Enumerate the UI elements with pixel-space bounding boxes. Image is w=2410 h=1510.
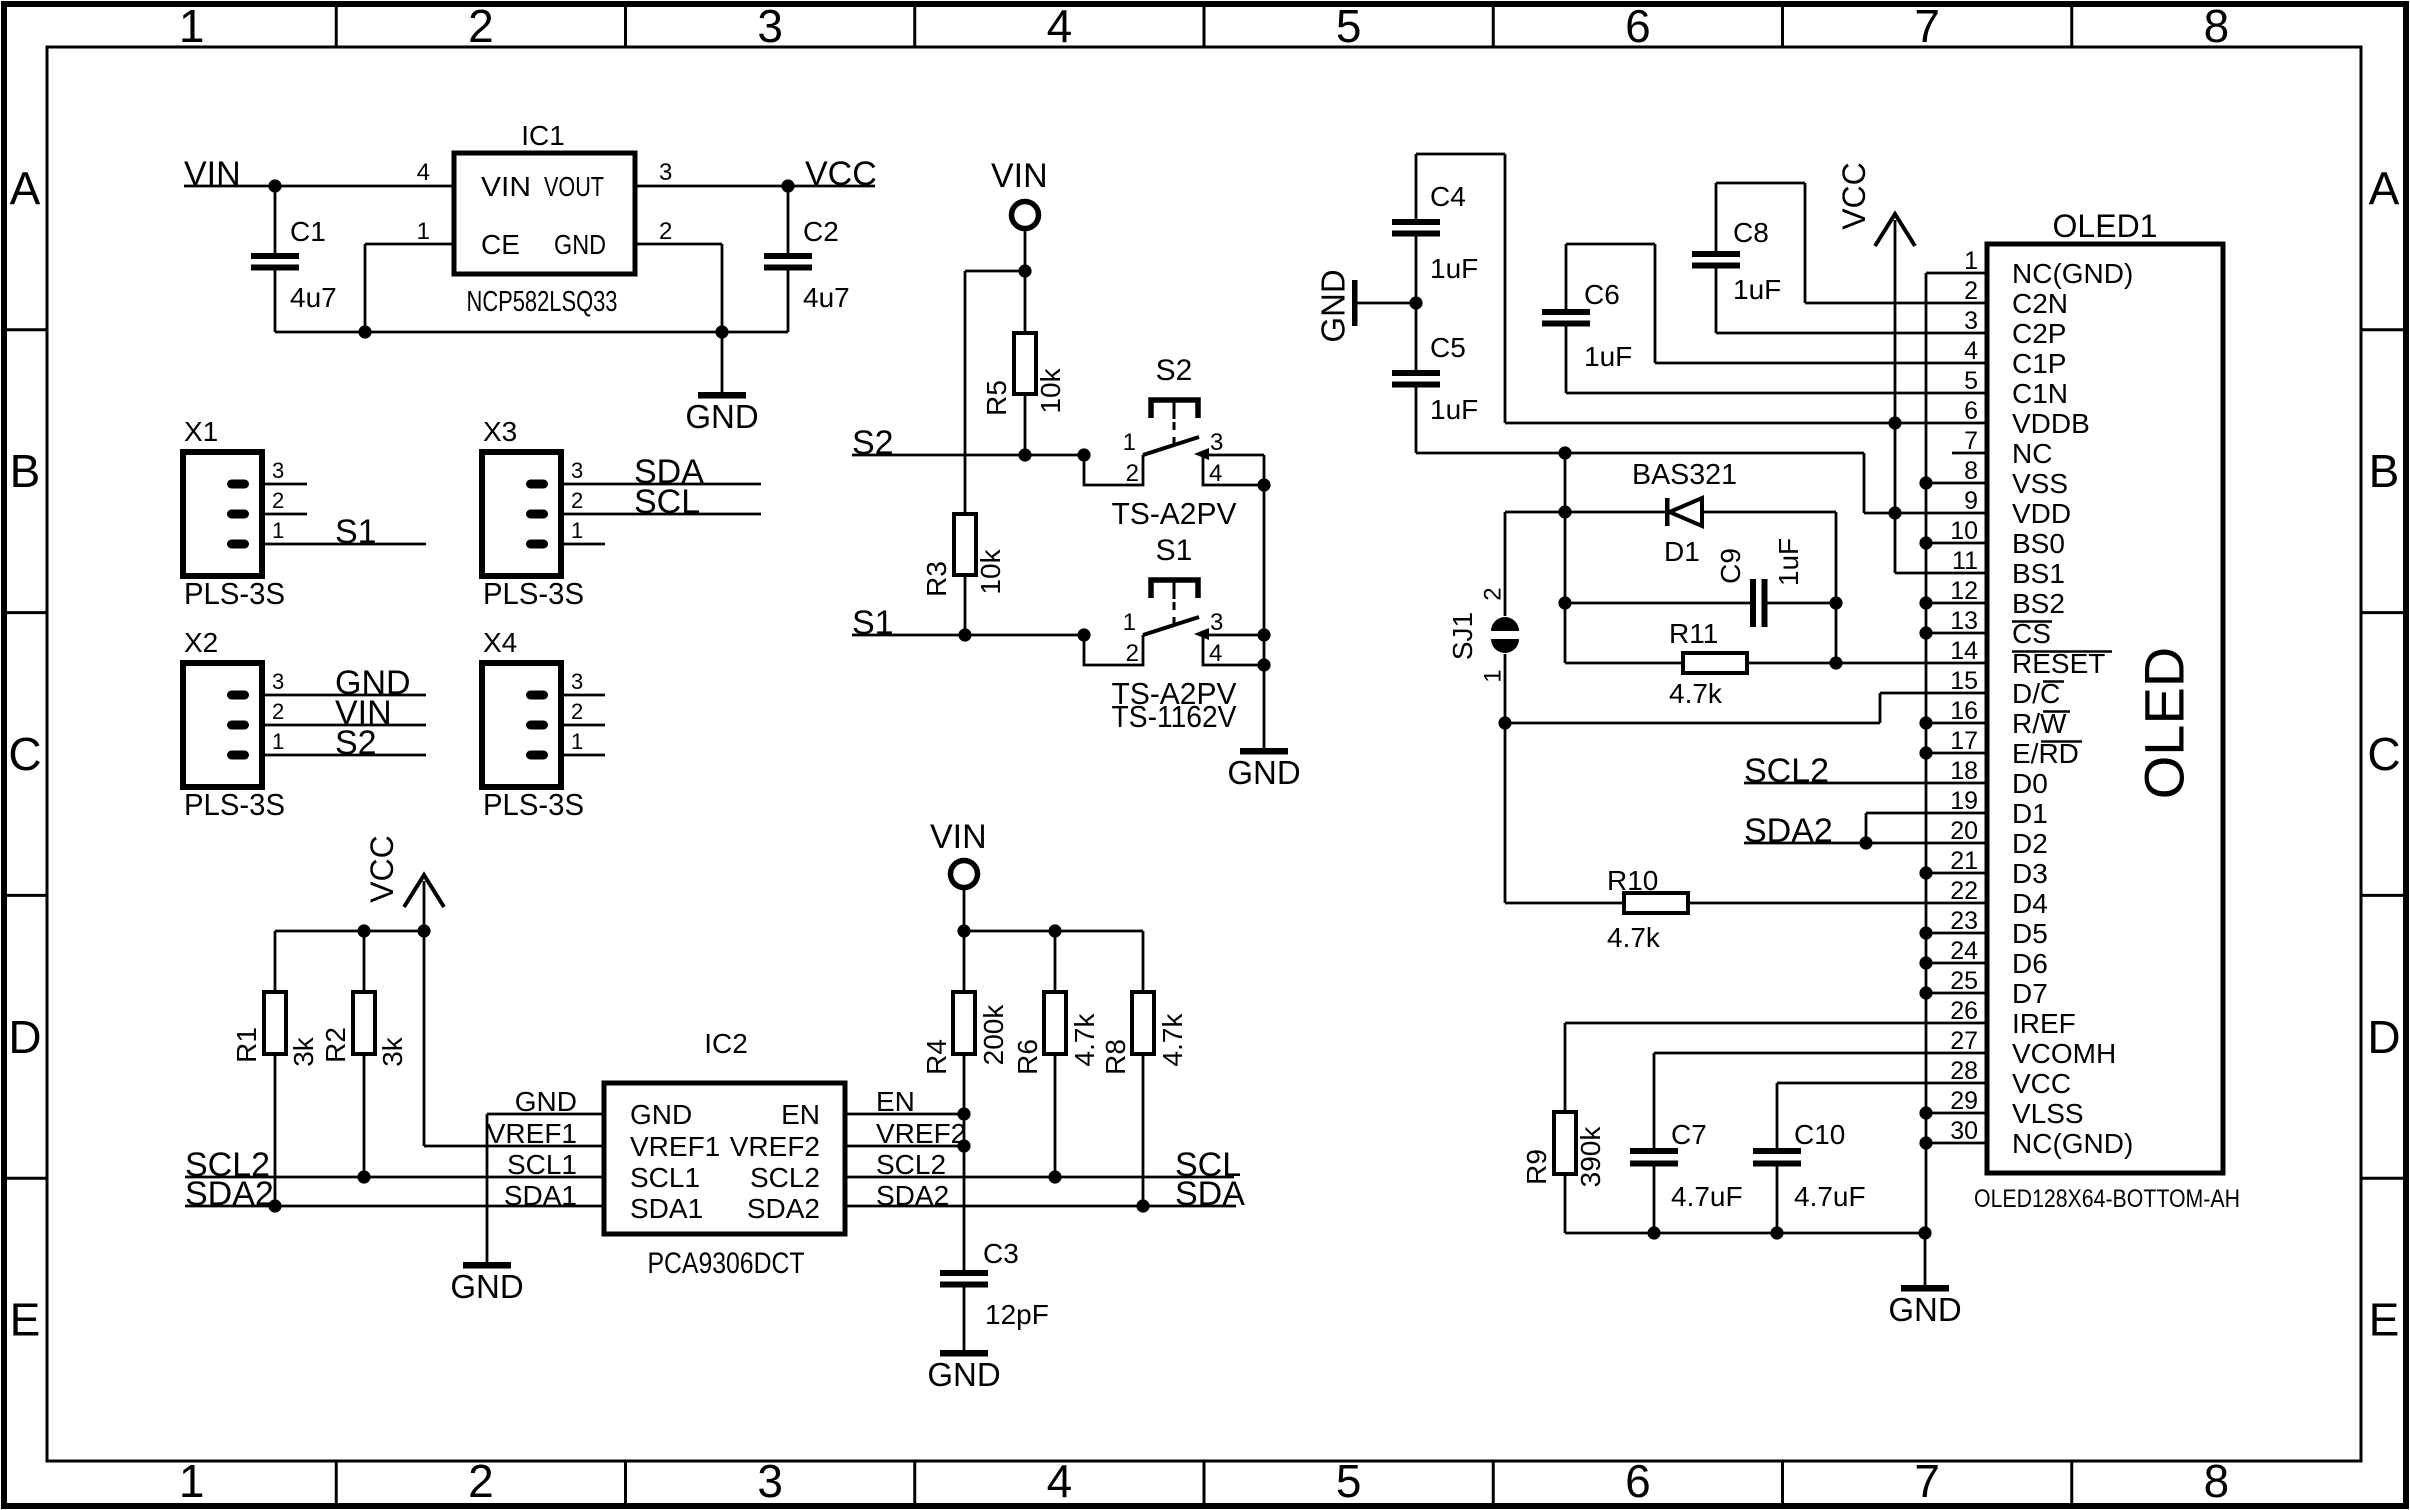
svg-text:GND: GND	[515, 1086, 577, 1117]
svg-text:2: 2	[1126, 640, 1139, 667]
wire X4 pin 2	[561, 724, 605, 727]
svg-text:D: D	[8, 1011, 41, 1063]
svg-text:GND: GND	[927, 1356, 1000, 1393]
svg-text:VCC: VCC	[2012, 1068, 2071, 1099]
svg-text:VREF1: VREF1	[630, 1131, 720, 1162]
switch S1 TS-A2PV	[1084, 534, 1264, 667]
svg-text:SCL2: SCL2	[750, 1162, 820, 1193]
svg-text:C3: C3	[983, 1238, 1019, 1269]
wire OLED pin 29 stub from ground bus	[1926, 1112, 1987, 1115]
svg-text:VSS: VSS	[2012, 468, 2068, 499]
OLED1 pin 10 BS0 name and number	[1950, 517, 2065, 559]
svg-text:12pF: 12pF	[985, 1299, 1049, 1330]
svg-text:4.7k: 4.7k	[1607, 922, 1661, 953]
resistor R4 200k	[921, 931, 1009, 1270]
svg-text:E: E	[2369, 1294, 2400, 1346]
svg-text:29: 29	[1950, 1087, 1978, 1115]
wire C7 to OLED pin 27 VCOMH	[1654, 1052, 1987, 1055]
svg-text:VREF1: VREF1	[487, 1118, 577, 1149]
svg-text:4: 4	[1209, 460, 1222, 487]
svg-text:PLS-3S: PLS-3S	[184, 576, 285, 611]
S2 value TS-A2PV	[1112, 496, 1237, 531]
svg-text:PLS-3S: PLS-3S	[483, 787, 584, 822]
svg-text:SDA1: SDA1	[504, 1180, 577, 1211]
svg-text:EN: EN	[876, 1086, 915, 1117]
svg-text:2: 2	[468, 0, 494, 52]
svg-text:4: 4	[1047, 1455, 1073, 1507]
svg-text:2: 2	[1479, 587, 1506, 600]
svg-text:13: 13	[1950, 607, 1978, 635]
svg-text:VDDB: VDDB	[2012, 408, 2090, 439]
wire IC1 ground rail with junctions	[275, 325, 788, 338]
svg-text:R9: R9	[1521, 1149, 1552, 1185]
capacitor C1 4u7	[251, 186, 337, 332]
OLED1 pin 8 VSS name and number	[1964, 457, 2068, 499]
OLED1 pin 20 D2 name and number	[1950, 817, 2048, 859]
diode D1 BAS321	[1505, 459, 1836, 567]
svg-text:D1: D1	[1664, 536, 1700, 567]
svg-text:1: 1	[272, 729, 284, 754]
svg-text:D5: D5	[2012, 918, 2048, 949]
svg-text:1uF: 1uF	[1430, 394, 1478, 425]
wire X3 pin 2 net SCL	[561, 483, 761, 521]
svg-text:SDA1: SDA1	[630, 1193, 703, 1224]
node S1 net label left	[852, 604, 894, 642]
svg-text:A: A	[2369, 162, 2400, 214]
IC2 pin name labels outside	[487, 1086, 967, 1211]
svg-text:3: 3	[1964, 307, 1978, 335]
wire OLED pin 12 stub from ground bus	[1926, 602, 1987, 605]
svg-text:X4: X4	[483, 627, 517, 658]
svg-text:6: 6	[1625, 0, 1651, 52]
OLED1 pin 19 D1 name and number	[1950, 787, 2048, 829]
OLED1 pin 14 RESET name and number	[1950, 637, 2105, 679]
svg-text:3: 3	[757, 0, 783, 52]
svg-text:SCL2: SCL2	[876, 1149, 946, 1180]
svg-text:C2N: C2N	[2012, 288, 2068, 319]
svg-text:15: 15	[1950, 667, 1978, 695]
OLED1 pin 11 BS1 name and number	[1952, 547, 2065, 589]
svg-text:SCL: SCL	[634, 483, 700, 521]
svg-text:VCC: VCC	[805, 155, 877, 193]
svg-text:SDA: SDA	[1175, 1175, 1245, 1213]
svg-text:4u7: 4u7	[290, 282, 337, 313]
svg-text:S2: S2	[1156, 354, 1193, 387]
capacitor C8 1uF	[1692, 183, 1781, 333]
svg-text:BS0: BS0	[2012, 528, 2065, 559]
svg-text:6: 6	[1625, 1455, 1651, 1507]
svg-text:5: 5	[1336, 0, 1362, 52]
svg-text:2: 2	[468, 1455, 494, 1507]
wire IC2 EN to R4 branch	[845, 1107, 971, 1120]
OLED1 pin 12 BS2 name and number	[1950, 577, 2065, 619]
svg-text:2: 2	[1964, 277, 1978, 305]
svg-text:S1: S1	[1156, 534, 1193, 567]
power symbol VCC arrow left	[364, 835, 444, 907]
OLED1 pin 3 C2P name and number	[1964, 307, 2066, 349]
svg-text:7: 7	[1914, 1455, 1940, 1507]
svg-text:X3: X3	[483, 416, 517, 447]
svg-text:C: C	[2367, 728, 2400, 780]
wire OLED pin 19 D1 branch	[1866, 813, 1987, 843]
svg-text:SDA2: SDA2	[747, 1193, 820, 1224]
svg-text:2: 2	[571, 488, 583, 513]
node SCL2 net label left	[185, 1146, 270, 1184]
svg-text:GND: GND	[450, 1268, 523, 1305]
resistor R2 3k	[320, 992, 408, 1177]
svg-text:D6: D6	[2012, 948, 2048, 979]
connector X1 PLS-3S	[183, 416, 285, 611]
wire OLED pin 17 stub from ground bus	[1926, 752, 1987, 755]
capacitor C6 1uF	[1542, 244, 1632, 393]
svg-text:X1: X1	[184, 416, 218, 447]
OLED1 pin 15 D/C name and number	[1950, 667, 2060, 709]
node SDA2 net label right	[1744, 812, 1833, 850]
wire ground bus S2 to S1	[1257, 485, 1270, 665]
OLED1 pin 24 D6 name and number	[1950, 937, 2048, 979]
svg-text:VLSS: VLSS	[2012, 1098, 2084, 1129]
svg-text:1: 1	[179, 1455, 205, 1507]
wire bottom ground rail of R9 C7 C10	[1565, 1226, 1932, 1239]
svg-text:VOUT: VOUT	[544, 171, 604, 202]
svg-text:4: 4	[1209, 640, 1222, 667]
OLED1 display connector OLED128X64-BOTTOM-AH	[1974, 208, 2240, 1213]
wire OLED pin 8 stub from ground bus	[1926, 482, 1987, 485]
svg-text:2: 2	[272, 699, 284, 724]
svg-text:C8: C8	[1733, 217, 1769, 248]
OLED1 pin 17 E/RD name and number	[1950, 727, 2079, 769]
svg-text:26: 26	[1950, 997, 1978, 1025]
OLED1 pin 7 NC name and number	[1964, 427, 2052, 469]
svg-text:VIN: VIN	[481, 171, 531, 202]
OLED1 pin 13 CS name and number	[1950, 607, 2051, 649]
wire VCC stem to IC2 VREF1	[417, 881, 604, 1146]
svg-text:GND: GND	[630, 1099, 692, 1130]
svg-text:R5: R5	[981, 380, 1012, 416]
OLED1 pin 4 C1P name and number	[1964, 337, 2066, 379]
svg-text:16: 16	[1950, 697, 1978, 725]
svg-text:2: 2	[659, 218, 672, 245]
svg-text:C: C	[8, 728, 41, 780]
svg-text:20: 20	[1950, 817, 1978, 845]
wire IC1 CE pin 1 to ground rail	[365, 244, 454, 332]
OLED1 pin 5 C1N name and number	[1964, 367, 2068, 409]
svg-text:GND: GND	[554, 229, 606, 260]
svg-text:GND: GND	[1315, 269, 1352, 342]
frame row labels A-E right	[2367, 162, 2400, 1345]
svg-text:1: 1	[1123, 609, 1136, 636]
svg-text:1: 1	[179, 0, 205, 52]
svg-text:17: 17	[1950, 727, 1978, 755]
capacitor C3 12pF	[940, 1238, 1049, 1350]
svg-text:C2P: C2P	[2012, 318, 2066, 349]
svg-text:C1: C1	[290, 216, 326, 247]
svg-text:3: 3	[659, 159, 672, 186]
wire X2 pin 2 net VIN	[262, 694, 426, 732]
connector X4 PLS-3S	[482, 627, 584, 822]
resistor R3 10k	[921, 271, 1006, 635]
wire OLED pin 1 stub from ground bus	[1926, 272, 1987, 275]
connector X3 PLS-3S	[482, 416, 584, 611]
svg-text:GND: GND	[685, 398, 758, 435]
svg-text:12: 12	[1950, 577, 1978, 605]
svg-text:SCL1: SCL1	[507, 1149, 577, 1180]
svg-text:D3: D3	[2012, 858, 2048, 889]
wire right side of D1 block	[1829, 512, 1842, 670]
wire X3 pin 3 net SDA	[561, 453, 761, 491]
svg-text:2: 2	[1126, 460, 1139, 487]
wire switch S1 pin 3 to ground bus	[1203, 634, 1264, 637]
wire OLED pin 30 stub from ground bus	[1926, 1142, 1987, 1145]
svg-text:25: 25	[1950, 967, 1978, 995]
svg-text:EN: EN	[781, 1099, 820, 1130]
ground symbol left of C4 C5 (rotated)	[1315, 269, 1358, 342]
resistor R6 4.7k	[1012, 931, 1100, 1177]
wire OLED pin 7 NC stub	[1952, 452, 1987, 455]
OLED1 pin 18 D0 name and number	[1950, 757, 2048, 799]
svg-text:S2: S2	[335, 724, 377, 762]
node VIN terminal circle above R4	[930, 818, 987, 888]
svg-text:SJ1: SJ1	[1447, 612, 1478, 660]
node S2 net label left	[852, 424, 894, 462]
svg-text:C6: C6	[1584, 279, 1620, 310]
resistor R10 4.7k	[1505, 865, 1688, 953]
wire X4 pin 1	[561, 754, 605, 757]
node VIN terminal circle for switch pull-ups	[991, 157, 1048, 229]
svg-text:NC(GND): NC(GND)	[2012, 258, 2133, 289]
node SCL net label	[1175, 1146, 1241, 1184]
svg-text:390k: 390k	[1575, 1126, 1606, 1188]
svg-text:IC2: IC2	[704, 1028, 748, 1059]
svg-text:30: 30	[1950, 1117, 1978, 1145]
svg-text:BS1: BS1	[2012, 558, 2065, 589]
node VIN net label at IC1 input	[184, 155, 241, 193]
svg-text:7: 7	[1914, 0, 1940, 52]
svg-text:8: 8	[1964, 457, 1978, 485]
wire VDD rail down left side of D1 block	[1558, 453, 1571, 663]
wire SDA2 to OLED pin 20 D2 with branch to pin 19	[1744, 836, 1987, 849]
IC1 voltage regulator NCP582LSQ33	[417, 120, 673, 318]
svg-text:3: 3	[272, 669, 284, 694]
wire IC1 VOUT pin 3 to VCC	[635, 179, 875, 192]
svg-text:4u7: 4u7	[803, 282, 850, 313]
wire ground bus S1 to ground symbol	[1257, 658, 1270, 748]
svg-text:TS-A2PV: TS-A2PV	[1112, 496, 1237, 531]
svg-text:R6: R6	[1012, 1039, 1043, 1075]
S1 value TS-A2PV	[1112, 676, 1237, 711]
wire X1 pin 3	[262, 483, 307, 486]
wire X3 pin 1	[561, 543, 605, 546]
svg-text:PLS-3S: PLS-3S	[483, 576, 584, 611]
OLED1 pin 9 VDD name and number	[1964, 487, 2071, 529]
frame column labels 1-8 top	[179, 0, 2229, 52]
OLED1 pin 2 C2N name and number	[1964, 277, 2068, 319]
svg-text:D1: D1	[2012, 798, 2048, 829]
svg-text:VIN: VIN	[991, 157, 1048, 195]
svg-text:1: 1	[272, 518, 284, 543]
svg-text:C1P: C1P	[2012, 348, 2066, 379]
svg-text:9: 9	[1964, 487, 1978, 515]
OLED1 pin 6 VDDB name and number	[1964, 397, 2090, 439]
resistor R8 4.7k	[1100, 931, 1188, 1206]
svg-text:3: 3	[1210, 609, 1223, 636]
wire VCC rail to R1 R2	[275, 924, 424, 992]
OLED1 active-low overbars	[2012, 622, 2112, 742]
wire net S1 to switch S1 pin 1	[852, 628, 1091, 641]
svg-text:3: 3	[272, 458, 284, 483]
svg-text:10: 10	[1950, 517, 1978, 545]
svg-text:1: 1	[1964, 247, 1978, 275]
svg-text:200k: 200k	[978, 1004, 1009, 1066]
wire OLED pin 10 stub from ground bus	[1926, 542, 1987, 545]
wire IC2 SDA2 to SDA with R8 junction	[845, 1199, 1236, 1212]
svg-text:C1N: C1N	[2012, 378, 2068, 409]
svg-text:VCC: VCC	[364, 835, 400, 903]
svg-text:A: A	[10, 162, 41, 214]
svg-text:TS-1162V: TS-1162V	[1112, 699, 1237, 734]
ground symbol below IC1	[685, 332, 758, 435]
svg-text:5: 5	[1964, 367, 1978, 395]
wire IC1 GND pin 2 to ground rail	[635, 244, 722, 332]
wire R9 to OLED pin 26 IREF	[1565, 1022, 1987, 1025]
connector X2 PLS-3S	[183, 627, 285, 822]
OLED1 pin 23 D5 name and number	[1950, 907, 2048, 949]
svg-text:D7: D7	[2012, 978, 2048, 1009]
svg-text:NC: NC	[2012, 438, 2052, 469]
svg-text:21: 21	[1950, 847, 1978, 875]
wire C6 top loop to OLED pin 4 C1P	[1566, 244, 1987, 363]
wire SJ1 down to R10	[1504, 723, 1507, 903]
ground symbol below switches	[1227, 748, 1300, 791]
svg-text:3: 3	[1210, 429, 1223, 456]
svg-text:D: D	[2367, 1011, 2400, 1063]
svg-text:18: 18	[1950, 757, 1978, 785]
svg-text:1: 1	[571, 518, 583, 543]
OLED1 pin 29 VLSS name and number	[1950, 1087, 2083, 1129]
svg-text:OLED1: OLED1	[2053, 208, 2158, 244]
svg-text:3: 3	[571, 669, 583, 694]
svg-text:R11: R11	[1669, 618, 1718, 649]
node SDA2 net label left	[185, 1175, 274, 1213]
wire OLED pin 24 stub from ground bus	[1926, 962, 1987, 965]
svg-text:VDD: VDD	[2012, 498, 2071, 529]
wire R10 to OLED pin 22 D4	[1688, 902, 1987, 905]
ground symbol below IC2 GND pin	[450, 1262, 523, 1305]
resistor R1 3k	[231, 992, 319, 1206]
svg-text:OLED: OLED	[2133, 647, 2196, 800]
svg-text:2: 2	[571, 699, 583, 724]
svg-text:1uF: 1uF	[1733, 274, 1781, 305]
svg-text:C4: C4	[1430, 181, 1466, 212]
svg-text:1uF: 1uF	[1584, 341, 1632, 372]
wire OLED pin 25 stub from ground bus	[1926, 992, 1987, 995]
OLED1 pin 27 VCOMH name and number	[1950, 1027, 2116, 1069]
ground symbol below C3	[927, 1350, 1000, 1393]
wire net S2 to switch S2 pin 1	[852, 448, 1091, 461]
svg-text:8: 8	[2204, 1455, 2230, 1507]
svg-text:1uF: 1uF	[1773, 538, 1804, 586]
wire SJ1 to OLED pin 15 D/C	[1498, 693, 1987, 730]
svg-text:19: 19	[1950, 787, 1978, 815]
svg-text:4.7uF: 4.7uF	[1794, 1181, 1866, 1212]
svg-text:D4: D4	[2012, 888, 2048, 919]
svg-text:2: 2	[272, 488, 284, 513]
svg-text:1: 1	[1479, 669, 1506, 682]
OLED1 pin 16 R/W name and number	[1950, 697, 2067, 739]
svg-text:C5: C5	[1430, 332, 1466, 363]
wire X1 pin 2	[262, 513, 307, 516]
capacitor C7 4.7uF	[1630, 1053, 1743, 1233]
svg-text:D0: D0	[2012, 768, 2048, 799]
wire VIN circle to pull-up junction	[965, 229, 1032, 278]
svg-text:GND: GND	[1227, 754, 1300, 791]
wire C4 top loop to OLED pin 6 VDDB	[1416, 154, 1987, 423]
ground symbol bottom right	[1888, 1233, 1961, 1328]
svg-text:11: 11	[1952, 547, 1978, 575]
svg-text:10k: 10k	[1035, 367, 1066, 413]
svg-text:4: 4	[1047, 0, 1073, 52]
svg-text:28: 28	[1950, 1057, 1978, 1085]
node SDA net label	[1175, 1175, 1245, 1213]
svg-text:S1: S1	[335, 513, 377, 551]
svg-text:D2: D2	[2012, 828, 2048, 859]
wire VCC bus to OLED pins 6 9 11	[1888, 220, 1987, 573]
OLED1 pin 26 IREF name and number	[1950, 997, 2076, 1039]
OLED1 pin 21 D3 name and number	[1950, 847, 2048, 889]
wire X1 pin 1 net S1	[262, 513, 426, 551]
svg-text:IC1: IC1	[521, 120, 565, 151]
power symbol VCC arrow right	[1836, 162, 1915, 246]
svg-text:VREF2: VREF2	[730, 1131, 820, 1162]
svg-text:R10: R10	[1607, 865, 1658, 896]
capacitor C4 1uF	[1392, 154, 1478, 303]
OLED1 pin 30 NC(GND) name and number	[1950, 1117, 2133, 1159]
capacitor C9 1uF (horizontal)	[1565, 538, 1836, 627]
wire X2 pin 3 net GND	[262, 664, 426, 702]
svg-text:GND: GND	[1888, 1291, 1961, 1328]
svg-text:8: 8	[2204, 0, 2230, 52]
frame row labels A-E left	[8, 162, 41, 1345]
svg-text:C10: C10	[1794, 1119, 1845, 1150]
capacitor C5 1uF	[1392, 303, 1478, 453]
svg-text:1: 1	[1123, 429, 1136, 456]
svg-text:C2: C2	[803, 216, 839, 247]
svg-text:NC(GND): NC(GND)	[2012, 1128, 2133, 1159]
solder jumper SJ1	[1447, 512, 1519, 723]
wire C8 bottom to OLED pin 3 C2P	[1716, 332, 1987, 335]
svg-text:1uF: 1uF	[1430, 253, 1478, 284]
wire R11 to OLED pin 14 RESET	[1747, 662, 1987, 665]
svg-text:NCP582LSQ33: NCP582LSQ33	[467, 286, 618, 318]
svg-text:PLS-3S: PLS-3S	[184, 787, 285, 822]
OLED1 pin 1 NC(GND) name and number	[1964, 247, 2133, 289]
resistor R9 390k	[1521, 1023, 1606, 1233]
svg-text:B: B	[10, 445, 41, 497]
wire C6 bottom to OLED pin 5 C1N	[1566, 392, 1987, 395]
wire ground to C4 C5 chain	[1357, 296, 1423, 309]
svg-text:E: E	[10, 1294, 41, 1346]
svg-text:R8: R8	[1100, 1039, 1131, 1075]
wire SCL2 to IC2 SCL1	[185, 1170, 604, 1183]
wire C8 top loop to OLED pin 2 C2N	[1716, 183, 1987, 303]
svg-text:CE: CE	[481, 229, 520, 260]
wire VIN circle to R4 R6 R8 rail	[957, 888, 1143, 938]
svg-text:R3: R3	[921, 561, 952, 597]
svg-text:VCOMH: VCOMH	[2012, 1038, 2116, 1069]
svg-text:VCC: VCC	[1836, 162, 1872, 230]
wire C5 bottom VDD rail to OLED pin 9	[1416, 446, 1987, 519]
svg-text:24: 24	[1950, 937, 1978, 965]
